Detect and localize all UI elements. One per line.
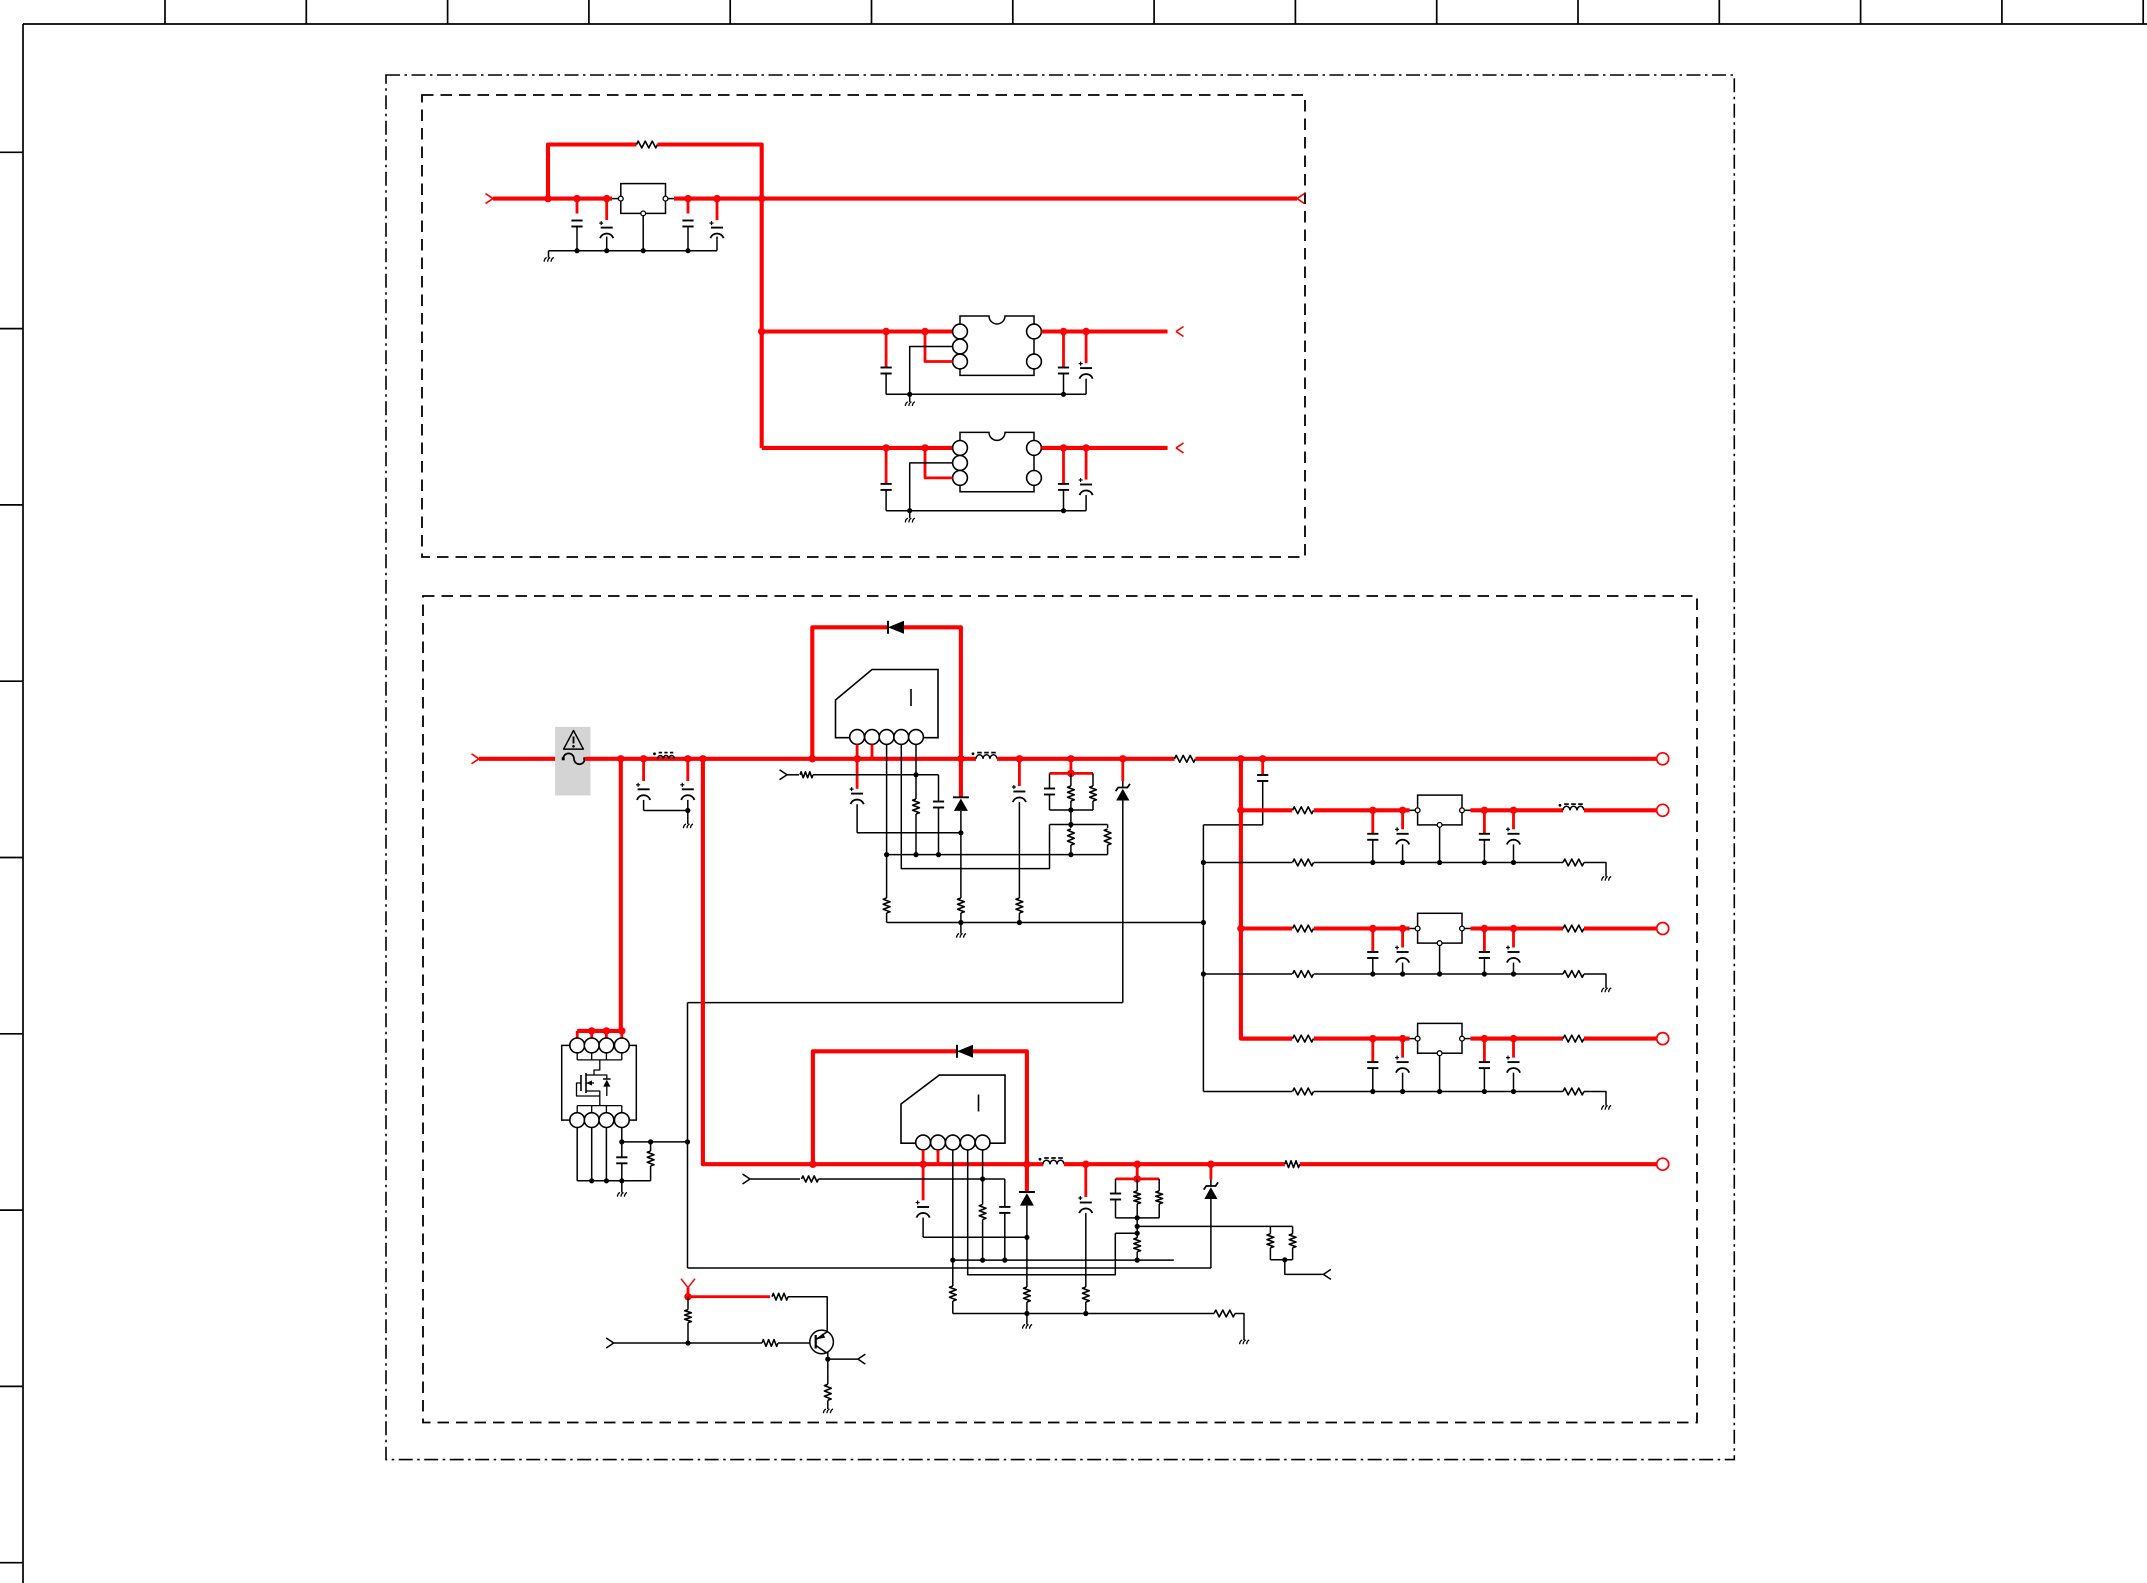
resistor R20c return (1293, 859, 1314, 866)
regulator U21 body (1418, 913, 1462, 943)
wire module A input line (762, 329, 953, 333)
wire FB1 line b (813, 774, 939, 776)
wire B enable elbow (red) (925, 448, 953, 478)
resistor R33 (772, 1293, 788, 1300)
wire emitter out (828, 1358, 858, 1360)
node divider top dot (1068, 822, 1073, 827)
node B rail dots (907, 508, 1066, 513)
node C13 rail2 dot (936, 852, 941, 857)
wire feedback riser left (548, 145, 637, 199)
wire row 20 rail end (1584, 863, 1606, 877)
node Y junction (684, 1293, 691, 1300)
node pin3b rail dot (950, 1258, 955, 1263)
resistor R18 series (1175, 755, 1196, 762)
output circle P-OUT22 (1657, 1033, 1669, 1045)
wire U10 pin3 (886, 744, 888, 854)
resistor R28 (1134, 1233, 1141, 1260)
node ground rail dots (574, 248, 690, 253)
wire feedback riser right (658, 145, 762, 199)
U20 pin-1 mark (978, 1095, 980, 1112)
input arrow J-Y (red) (681, 1279, 695, 1297)
node fet gnd dots (589, 1178, 624, 1183)
capacitor C20d (polarized) (1506, 810, 1520, 862)
node A output dots (1060, 328, 1090, 335)
mosfet Q10 bottom pins (570, 1113, 629, 1128)
diode D12 body diode (594, 1075, 611, 1096)
node comp bottom dot (1068, 807, 1073, 812)
wire collector feed b (788, 1297, 827, 1331)
capacitor C20a (1367, 810, 1378, 862)
node A rail dots (907, 392, 1066, 397)
wire R21 to rail (982, 1220, 984, 1261)
ground GND10 (683, 811, 693, 829)
wire zener net riser (687, 1003, 689, 1142)
wire module B input line (762, 446, 953, 450)
capacitor C16 (1257, 759, 1268, 825)
wire comp net bottom bar (1050, 809, 1094, 811)
wire row 21 to reg (1314, 926, 1415, 930)
node R28 rail dot (1135, 1258, 1140, 1263)
resistor R26 (1134, 1179, 1141, 1218)
node pin3 rail2 dot (884, 852, 889, 857)
resistor R29 (1267, 1226, 1274, 1259)
resistor R20d return (1563, 859, 1584, 866)
resistor R21d return (1563, 971, 1584, 978)
node comp net top (1067, 770, 1074, 777)
input arrow J-IN2 (472, 754, 480, 764)
regulator U22 pins (1415, 1036, 1464, 1055)
wire R14 to rail4 (960, 913, 962, 923)
wire fet out pin5 (576, 1128, 578, 1181)
resistor R19 (1016, 898, 1023, 913)
wire row 21 rail end (1584, 974, 1606, 988)
wire module B output line (1041, 446, 1167, 450)
wire R25 to bottom rail (952, 1301, 954, 1314)
wire conv2 line a (813, 1162, 1043, 1166)
module A left pins (953, 324, 968, 369)
inductor L20 series (1559, 804, 1584, 810)
resistor R25 (949, 1286, 956, 1301)
output circle P-OUT5 (1657, 1158, 1669, 1170)
capacitor C2 (polarized) (599, 199, 613, 251)
U10 pins (850, 730, 924, 745)
resistor R21b series (1563, 925, 1584, 932)
wire main input line (493, 197, 618, 201)
wire main2 input segment (479, 757, 563, 761)
sheet top ruler ticks (165, 0, 2143, 24)
wire U20 boost loop right (973, 1051, 1027, 1164)
transistor Q10 fet symbol (577, 1073, 600, 1096)
ground GND12 (617, 1181, 627, 1197)
zener ZD1 (1116, 759, 1130, 1003)
wire row 22 rail end (1584, 1092, 1606, 1106)
wire rows feed trunk (1241, 759, 1292, 1039)
wire fet top bar (577, 1029, 622, 1033)
wire fet source drop (594, 1091, 600, 1106)
resistor R37 (1082, 1287, 1089, 1302)
regulator U20 body (1418, 795, 1462, 825)
node base line dot (685, 1340, 690, 1345)
node B output dots (1060, 444, 1090, 451)
wire fet inner bottom bar (577, 1106, 622, 1113)
diode D20 (957, 1045, 973, 1058)
node fet bar dots (588, 1027, 626, 1034)
wire top ground rail (549, 250, 718, 252)
resistor R22a series (1293, 1035, 1314, 1042)
regulator U21 pins (1415, 926, 1464, 945)
wire U20 pin4 route (968, 1150, 1116, 1275)
converter U20 body (901, 1075, 1005, 1143)
wire sense out (1285, 1260, 1324, 1275)
capacitor C23 (polarized) (1078, 1164, 1092, 1313)
resistor R34 (685, 1297, 692, 1343)
wire row 21 out a (1464, 928, 1563, 930)
wire D21 anode down (1026, 1237, 1028, 1287)
output circle P-OUT20 (1657, 804, 1669, 816)
resistor R22b series (1563, 1035, 1584, 1042)
wire U10 boost loop left (812, 627, 888, 759)
capacitor C22c (1479, 1039, 1490, 1092)
wire A enable elbow (red) (925, 332, 953, 362)
diode D21 freewheel (1019, 1164, 1035, 1237)
node emitter dot (825, 1357, 830, 1362)
resistor R17 (1104, 825, 1111, 855)
wire row 22 out a (1464, 1038, 1563, 1040)
wire base line a (614, 1342, 762, 1344)
node R21 rail dot (980, 1258, 985, 1263)
wire U10 pin1 stub (856, 744, 859, 758)
capacitor C11 (polarized) (680, 759, 694, 811)
wire rail2b (953, 1259, 1174, 1261)
arrow sense out (<) (1323, 1269, 1331, 1279)
wire emitter drop (826, 1353, 827, 1359)
capacitor C21c (1479, 929, 1490, 975)
resistor R27 (1156, 1179, 1163, 1218)
wire C16 to gnd bus (1203, 824, 1262, 826)
output circle P-OUT1 (1657, 753, 1669, 765)
node row 22 out dots (1481, 1035, 1518, 1042)
capacitor C1 (571, 199, 582, 251)
capacitor C3 (682, 199, 693, 251)
resistor R21a series (1293, 925, 1314, 932)
ground B (905, 511, 915, 523)
wire pin3b below (952, 1260, 954, 1286)
capacitor C21b (polarized) (1395, 929, 1409, 975)
DC/DC module B body (960, 432, 1034, 491)
wire row 22 return rail b (1314, 1091, 1563, 1093)
ground GND21 (1240, 1340, 1250, 1344)
sheet left ruler ticks (0, 152, 23, 1562)
wire row 22 return rail a (1203, 1091, 1292, 1093)
arrow emitter out (<) (858, 1354, 866, 1364)
wire row 21 return rail a (1203, 973, 1292, 975)
wire pin3 below (886, 855, 888, 898)
wire row 20 return rail b (1314, 862, 1563, 864)
node main dots (544, 195, 765, 202)
ground GND21 (1602, 988, 1612, 992)
wire fet pin stubs (577, 1031, 622, 1039)
capacitor C21 (999, 1179, 1010, 1260)
wire conv2 trunk (703, 759, 813, 1164)
wire U20 gnd pin (1439, 827, 1441, 862)
wire comp net stub (1070, 759, 1073, 774)
wire rail to gnd21 (1235, 1314, 1244, 1341)
feedback arrow J-FB2 (743, 1174, 751, 1184)
regulator U22 body (1418, 1023, 1462, 1053)
wire C12 to diode rail (857, 832, 961, 834)
wire row 22 out b (1584, 1037, 1657, 1041)
wire regulator output line (668, 198, 1297, 200)
wire comp net top bar (1050, 772, 1094, 775)
wire row 22 feed (1241, 1037, 1292, 1041)
wire fet out pin6 (591, 1128, 593, 1181)
wire fb divider tap (1137, 1225, 1270, 1227)
wire conv2 bottom rail (953, 1313, 1214, 1315)
regulator U20 pins (1415, 808, 1464, 827)
node sense divider dot (1282, 1257, 1287, 1262)
wire main2 output segment (1195, 757, 1656, 761)
resistor R32 rail (1214, 1310, 1235, 1317)
capacitor C20b (polarized) (1395, 810, 1409, 862)
wire row 21 feed (1241, 926, 1292, 930)
node main2 dots left (617, 755, 965, 762)
U10 pin-1 mark (910, 689, 912, 706)
wire comp2 chain (1136, 1218, 1138, 1233)
wire fet drain drop (594, 1060, 600, 1075)
outer dash-dot block boundary (386, 75, 1734, 1460)
wire fet out pin7 (605, 1128, 607, 1181)
wire U20 boost loop left (813, 1051, 957, 1164)
diode D11 freewheel (953, 759, 969, 833)
fuse F1 element (562, 753, 587, 764)
mosfet Q10 top pins (570, 1038, 629, 1053)
node bus dots (1201, 860, 1206, 977)
node C11 rail dot (685, 808, 690, 813)
capacitor Cin B (881, 448, 892, 511)
inductor FB1 bead (653, 752, 674, 758)
capacitor C17 (616, 1142, 627, 1181)
wire line2 out (1300, 1162, 1657, 1166)
wire sense divider top bar (1270, 1225, 1292, 1227)
U20 pins (916, 1135, 990, 1150)
wire U10 pin4 route (901, 744, 1049, 868)
capacitor C13 (933, 775, 944, 855)
resistor R22c return (1293, 1088, 1314, 1095)
wire fet sense rail (622, 1141, 688, 1143)
wire line2 seg b (1064, 1162, 1285, 1166)
node divider2 dots (1135, 1224, 1140, 1236)
regulator U1 body (621, 184, 666, 214)
wire C10/C11 ground rail (644, 810, 688, 812)
lower dashed sub-block boundary (423, 596, 1697, 1423)
wire sense divider bottom bar (1270, 1259, 1292, 1261)
wire fet trunk (619, 759, 623, 1031)
wire rail4 (887, 922, 1204, 924)
node comp2 top (1134, 1175, 1141, 1182)
wire FB2 line b (819, 1178, 1005, 1180)
zener ZD2 (1204, 1164, 1218, 1268)
resistor R20 (802, 1176, 819, 1182)
node row 21 in dots (1369, 925, 1406, 932)
wire row 20 out b (1584, 808, 1657, 812)
ground GND20 (1023, 1314, 1033, 1329)
wire fet out pin8 (621, 1128, 623, 1142)
capacitor C12 (polarized) (850, 759, 864, 833)
wire row 20 return rail a (1203, 862, 1292, 864)
arrow A output (<) (1176, 327, 1184, 337)
wire B trim pin (910, 463, 953, 511)
wire ground bus (1202, 825, 1204, 1092)
ground GND1 (544, 251, 554, 262)
fuse F1 highlight box (555, 727, 590, 796)
wire main2 to resistor (997, 757, 1175, 761)
resistor R14 (958, 898, 965, 913)
node C21 rail dot (1002, 1258, 1007, 1263)
wire U20 pin3 (952, 1150, 954, 1260)
wire R11 to rail2 (915, 814, 917, 855)
node row 22 rail dots (1370, 1089, 1516, 1094)
wire comp to divider (1070, 810, 1072, 825)
node FB2 pin5 dot (980, 1176, 985, 1181)
wire U21 gnd pin (1439, 946, 1441, 975)
capacitor C21a (1367, 929, 1378, 975)
node rows trunk taps (1237, 807, 1244, 933)
feedback arrow J-FB1 (780, 770, 788, 780)
wire comp2 top bar (1116, 1178, 1160, 1181)
wire base line b (778, 1342, 810, 1344)
node diode rail dot (958, 830, 963, 835)
node row 20 rail dots (1370, 860, 1516, 865)
wire divider2 link bar (1115, 1232, 1137, 1234)
wire FB1 line a (787, 774, 799, 776)
capacitor C14 (1044, 773, 1055, 810)
wire U1 ground pin (642, 216, 644, 251)
node row 21 out dots (1481, 925, 1518, 932)
node conv2 rail dots (1024, 1311, 1088, 1316)
node trunk module-A tap (758, 328, 765, 335)
node line2 dots right (1082, 1161, 1215, 1168)
wire D11 anode down (960, 833, 962, 898)
node comp2 bottom dot (1135, 1215, 1140, 1220)
wire main2 after fuse (585, 757, 976, 761)
wire U22 gnd pin (1439, 1056, 1441, 1092)
wire B ground rail (886, 510, 1086, 512)
resistor R12 (1068, 773, 1075, 810)
capacitor C10 (polarized) (636, 759, 650, 811)
wire row 20 feed (1241, 808, 1292, 812)
capacitor C15 (polarized) (1012, 759, 1026, 923)
ground GND22 (823, 1409, 833, 1413)
wire U10 pin2 stub (871, 744, 874, 758)
wire U10 boost loop right (904, 627, 961, 759)
output circle P-OUT21 (1657, 923, 1669, 935)
arrow B output (<) (1176, 443, 1184, 453)
capacitor C22b (polarized) (1395, 1039, 1409, 1092)
wire row 21 return rail b (1314, 973, 1563, 975)
node row 20 in dots (1369, 807, 1406, 814)
wire fet gnd rail (577, 1180, 650, 1182)
node module B input dots (882, 444, 928, 451)
capacitor Cout2 A (polarized) (1079, 332, 1093, 395)
mosfet Q10 package body (562, 1045, 637, 1120)
resistor R-FB1 (637, 141, 658, 148)
wire U10 pin5 (915, 744, 917, 799)
wire collector feed (red) (688, 1295, 770, 1298)
module A right pins (1027, 324, 1042, 369)
capacitor C4 (polarized) (710, 199, 724, 251)
ground A (905, 394, 915, 406)
capacitor Cout1 B (1058, 448, 1069, 511)
wire row 20 to reg (1314, 808, 1415, 812)
capacitor C21d (polarized) (1506, 929, 1520, 975)
node main2 dots right (1016, 755, 1127, 762)
wire A trim pin (910, 347, 953, 395)
arrow to load (<) (1297, 194, 1305, 204)
resistor R30 (1289, 1226, 1296, 1259)
resistor R10 (800, 772, 813, 778)
wire divider top bar (1050, 824, 1108, 826)
wire C20 to diode rail (923, 1236, 1027, 1238)
capacitor Cout1 A (1058, 332, 1069, 395)
node row 20 out dots (1481, 807, 1518, 814)
wire comp2 stub (1136, 1164, 1139, 1179)
wire module A output line (1041, 329, 1167, 333)
wire trunk to modules (760, 199, 764, 448)
node fet sense dots (619, 1139, 690, 1144)
capacitor Cout2 B (polarized) (1079, 448, 1093, 511)
wire A ground rail (886, 393, 1086, 395)
ground GND20 (1602, 877, 1612, 881)
wire R15 to rail4 (886, 913, 888, 923)
converter U10 body (836, 670, 939, 738)
resistor R31 series (1285, 1161, 1300, 1168)
resistor R20a series (1293, 807, 1314, 814)
resistor R13 (1090, 773, 1097, 810)
resistor R21c return (1293, 971, 1314, 978)
wire R36 to gnd (827, 1400, 829, 1409)
wire U20 pin2 stub (937, 1150, 940, 1164)
resistor R21 (979, 1205, 986, 1220)
upper dashed sub-block boundary (422, 95, 1305, 557)
module B right pins (1027, 441, 1042, 486)
node row 21 rail dots (1370, 971, 1516, 976)
wire emitter to R36 (827, 1359, 829, 1384)
wire R24 to rail (1026, 1302, 1028, 1314)
node line2 dots left (809, 1161, 1030, 1168)
transistor Q20 (810, 1330, 834, 1354)
resistor R16 (1068, 825, 1075, 855)
resistor R11 (913, 799, 920, 814)
ground GND22 (1602, 1106, 1612, 1110)
node rail4 dots (958, 920, 1022, 925)
node diode2 rail dot (1024, 1235, 1029, 1240)
node module A input dots (882, 328, 928, 335)
wire sense to lower net (687, 1142, 689, 1268)
capacitor C22a (1367, 1039, 1378, 1092)
resistor R22d return (1563, 1088, 1584, 1095)
resistor R24 (1024, 1287, 1031, 1302)
inductor L20 (1039, 1158, 1064, 1164)
inductor L10 (972, 752, 997, 758)
wire zener net horizontal (688, 1002, 1123, 1004)
resistor R23 (647, 1142, 654, 1181)
capacitor C20c (1479, 810, 1490, 862)
wire row 21 out b (1584, 926, 1657, 930)
node row 22 in dots (1369, 1035, 1406, 1042)
wire FB2 line a (750, 1178, 800, 1180)
wire row 22 to reg (1314, 1037, 1415, 1041)
module B left pins (953, 441, 968, 486)
